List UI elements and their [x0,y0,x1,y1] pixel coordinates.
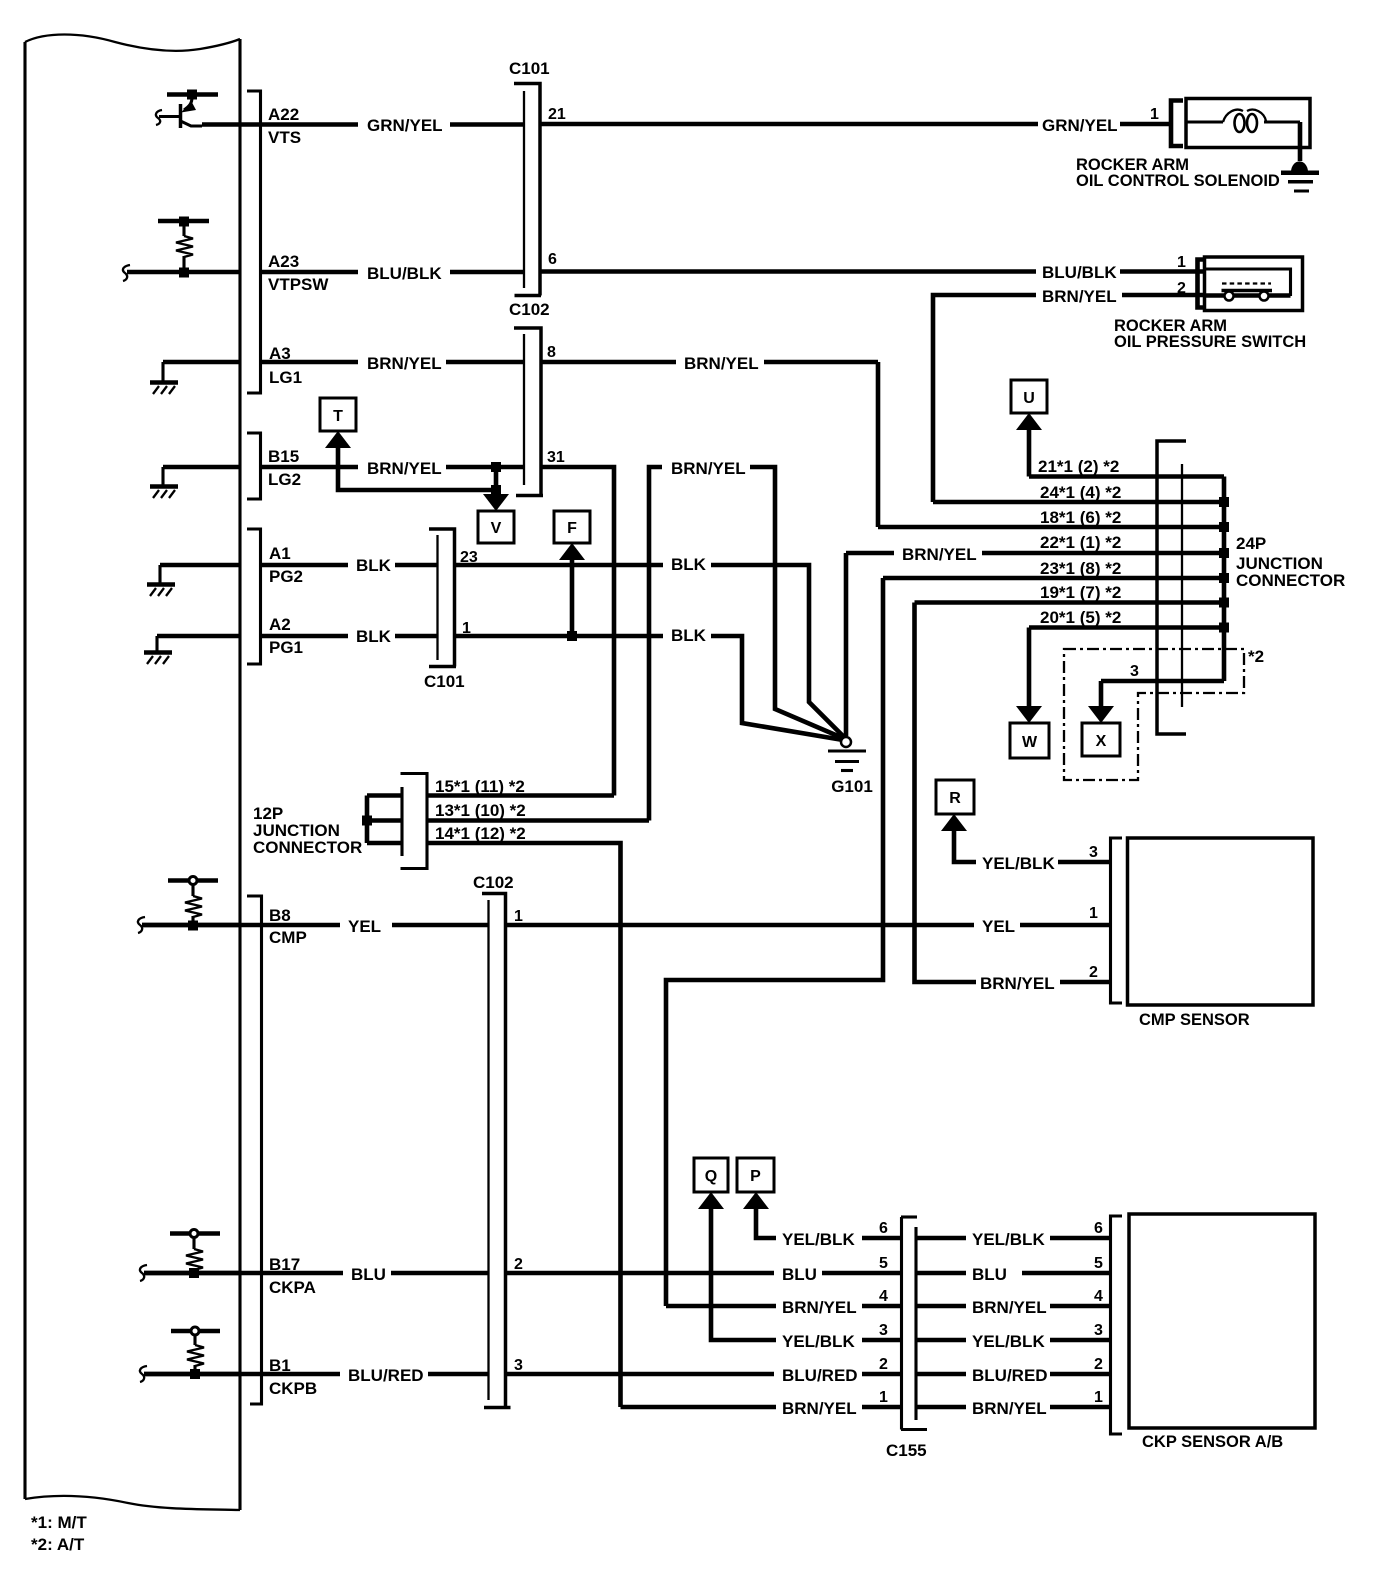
svg-text:Q: Q [705,1168,717,1185]
svg-text:YEL/BLK: YEL/BLK [972,1230,1045,1249]
wire B8 YEL to C102 [142,917,489,936]
svg-text:G101: G101 [831,777,873,796]
svg-text:VTS: VTS [268,128,301,147]
svg-text:5: 5 [879,1255,888,1272]
junction dot row 19 [1219,598,1229,608]
svg-text:3: 3 [1130,663,1139,680]
wire BRN/YEL C155 pin 1 to CKP pin 1 [916,1399,1111,1418]
connector code box T [320,398,356,431]
pin B1 CKPB label [269,1356,317,1398]
svg-text:W: W [1022,734,1038,751]
svg-text:*2: *2 [1248,647,1264,666]
junction dot on A2 wire [567,631,577,641]
pin B17 CKPA label [269,1255,316,1297]
svg-text:BLU: BLU [782,1265,817,1284]
svg-text:13*1 (10) *2: 13*1 (10) *2 [435,801,526,820]
wire 12P pin 14 row down to C155 pin 1 [427,824,621,1407]
wire BLU/RED C155 pin 2 to CKP pin 2 [916,1366,1111,1385]
svg-text:BLU/BLK: BLU/BLK [367,264,442,283]
wire BLU C155 pin 5 to CKP pin 5 [916,1265,1111,1284]
wire-break hook at B17 [140,1265,147,1281]
wire YEL/BLK C155 pin 3 to CKP pin 3 [916,1332,1111,1351]
wire YEL C102 pin 1 to CMP sensor pin 1 [506,917,1111,936]
connector code box P [737,1158,774,1192]
CMP sensor box [1128,838,1314,1029]
ECM housing right edge [238,39,241,1510]
pin B15 LG2 label [268,447,301,489]
connector C101 upper [509,59,550,296]
rocker arm oil control solenoid label [1076,156,1280,190]
connector code box X [1082,723,1120,756]
svg-text:BRN/YEL: BRN/YEL [367,354,442,373]
wire junction row 19 [915,583,1225,603]
wire BLU/BLK C101 to oil pressure switch pin 1 [541,263,1204,282]
svg-text:OIL PRESSURE SWITCH: OIL PRESSURE SWITCH [1114,333,1306,351]
svg-text:19*1 (7) *2: 19*1 (7) *2 [1040,583,1121,602]
CKP sensor A/B box [1129,1214,1315,1451]
resistor R1 at A23 VTPSW [158,217,209,278]
connector code box V [478,511,514,543]
resistor R2 at B8 CMP [168,877,218,931]
svg-text:C102: C102 [509,300,550,319]
wire BRN/YEL junction row 23 to C155 pin 4 [666,1298,902,1317]
svg-text:BRN/YEL: BRN/YEL [684,354,759,373]
24P junction connector label [1236,534,1345,590]
svg-text:1: 1 [879,1389,888,1406]
svg-text:BRN/YEL: BRN/YEL [782,1399,857,1418]
wire junction row 18 [878,508,1224,527]
rocker arm oil pressure switch connector bracket [1198,260,1204,308]
pin A1 PG2 label [269,544,303,586]
wire A23 BLU/BLK to C101 [262,264,524,283]
connector code box W [1010,723,1049,758]
wire BLK C101 pin 1 to G101 [455,626,844,740]
svg-text:3: 3 [1089,844,1098,861]
chassis ground at PG2 (A1) [147,565,240,596]
24P junction bus [1222,477,1227,682]
wire BLU/RED C102 pin 3 to C155 pin 2 [506,1366,902,1385]
wire 12P pin 15 row [427,777,614,796]
junction dot on 12P bus [362,816,372,826]
arrow into X [1088,706,1114,723]
junction dot on branch corner [491,485,501,495]
svg-text:6: 6 [1094,1220,1103,1237]
wire A2 BLK to C101 [262,627,438,646]
svg-text:YEL: YEL [348,917,381,936]
svg-text:2: 2 [1177,280,1186,297]
wire junction row 23 down to CKP row 4 [666,578,883,1306]
junction dot row 22 [1219,548,1229,558]
svg-text:T: T [333,408,343,425]
connector code box Q [694,1158,728,1192]
wire junction row 23 [883,559,1224,578]
wire-break hook at A23 [123,265,130,281]
svg-text:31: 31 [547,449,565,466]
svg-text:YEL/BLK: YEL/BLK [982,854,1055,873]
wire branch from A2 up to F [570,558,575,636]
svg-text:6: 6 [548,251,557,268]
svg-text:BRN/YEL: BRN/YEL [1042,287,1117,306]
wire B17 to wire-break hook [144,1271,240,1276]
24P junction connector body [1157,441,1186,734]
svg-text:YEL/BLK: YEL/BLK [782,1332,855,1351]
junction dot row 20 [1219,623,1229,633]
svg-text:CONNECTOR: CONNECTOR [1236,571,1345,590]
svg-text:CKPA: CKPA [269,1278,316,1297]
svg-text:*1: M/T: *1: M/T [31,1513,87,1532]
svg-text:5: 5 [1094,1255,1103,1272]
connector C101 lower [424,529,465,691]
wire YEL/BLK from P to C155 pin 6 [756,1207,902,1249]
svg-text:2: 2 [879,1356,888,1373]
wire BLK C101 pin 23 to G101 [455,555,846,738]
wire YEL/BLK C155 pin 6 to CKP pin 6 [916,1230,1111,1249]
svg-text:BLK: BLK [356,627,392,646]
arrow into F [559,543,585,560]
wire junction row 24 [933,483,1224,502]
connector C102 lower [473,873,514,1408]
arrow into V [483,494,509,511]
wire YEL/BLK from Q to C155 pin 3 [711,1207,902,1351]
svg-text:BLU/RED: BLU/RED [348,1366,424,1385]
arrow into T [325,431,351,448]
arrow into U [1016,413,1042,430]
svg-text:R: R [949,790,961,807]
wire branch from B15 to T and V [338,446,496,497]
svg-text:BRN/YEL: BRN/YEL [782,1298,857,1317]
svg-text:A22: A22 [268,105,299,124]
wire 12P pin 13 row [427,801,649,821]
svg-text:PG2: PG2 [269,567,303,586]
resistor R3 at B17 CKPA [170,1230,220,1279]
svg-text:2: 2 [1089,964,1098,981]
ECM housing torn bottom edge [25,1496,240,1510]
chassis ground at LG2 (B15) [150,467,240,498]
wire A22 GRN/YEL to C101 [202,116,524,135]
svg-text:BRN/YEL: BRN/YEL [367,459,442,478]
svg-text:GRN/YEL: GRN/YEL [1042,116,1118,135]
svg-text:15*1 (11) *2: 15*1 (11) *2 [435,777,525,796]
svg-text:VTPSW: VTPSW [268,275,329,294]
svg-text:BLU/BLK: BLU/BLK [1042,263,1117,282]
svg-text:BRN/YEL: BRN/YEL [972,1399,1047,1418]
wire BRN/YEL junction row 22 to G101 [846,545,1224,564]
svg-text:1: 1 [462,620,471,637]
junction dot row 18 [1219,522,1229,532]
wire-break hook at B1 [140,1366,147,1382]
wire B15 BRN/YEL to C102 [262,459,524,478]
svg-text:BRN/YEL: BRN/YEL [972,1298,1047,1317]
svg-text:18*1 (6) *2: 18*1 (6) *2 [1040,508,1121,527]
resistor R4 at B1 CKPB [171,1327,220,1379]
svg-text:YEL/BLK: YEL/BLK [782,1230,855,1249]
svg-text:BRN/YEL: BRN/YEL [980,974,1055,993]
svg-text:24*1 (4) *2: 24*1 (4) *2 [1040,483,1121,502]
wire BRN/YEL 12P pin 14 to C155 pin 1 [621,1399,902,1418]
ground G101 [828,553,873,796]
ECM pin bracket B8-B1 [247,896,262,1404]
ECM pin bracket B15 [247,433,261,499]
pin A23 VTPSW label [268,252,329,294]
wire B8 to wire-break hook [142,923,240,928]
svg-text:LG1: LG1 [269,368,302,387]
svg-text:C155: C155 [886,1441,927,1460]
CKP sensor connector bracket [1111,1216,1123,1434]
svg-text:8: 8 [547,344,556,361]
wire A23 to wire-break hook [127,270,240,275]
svg-text:20*1 (5) *2: 20*1 (5) *2 [1040,608,1121,627]
svg-text:24P: 24P [1236,534,1266,553]
wire BRN/YEL pressure switch pin 2 down to junction row 24 [933,287,1204,502]
arrow into Q [698,1192,724,1209]
connector code box F [554,511,590,543]
svg-text:BRN/YEL: BRN/YEL [902,545,977,564]
svg-text:6: 6 [879,1220,888,1237]
svg-text:V: V [491,520,502,537]
chassis ground at LG1 (A3) [150,362,240,394]
wire YEL/BLK from R to CMP sensor pin 3 [954,829,1111,873]
svg-text:4: 4 [1094,1288,1103,1305]
transistor Q1 VTS output driver [159,90,218,129]
svg-text:X: X [1096,733,1107,750]
pressure switch inner chamber [1205,269,1291,296]
arrow into W [1016,706,1042,723]
svg-text:P: P [750,1168,761,1185]
svg-text:A2: A2 [269,615,291,634]
arrow into P [743,1192,769,1209]
pressure switch actuation dashed line [1222,282,1271,284]
pin A2 PG1 label [269,615,303,657]
pin A3 LG1 label [269,344,302,387]
svg-text:YEL/BLK: YEL/BLK [972,1332,1045,1351]
junction dot row 23 [1219,573,1229,583]
wire-break hook at B8 [138,917,145,933]
svg-text:B8: B8 [269,906,291,925]
svg-text:3: 3 [1094,1322,1103,1339]
svg-text:3: 3 [514,1357,523,1374]
svg-text:U: U [1023,390,1035,407]
wire GRN/YEL C101 to solenoid [541,116,1171,135]
ECM housing left edge [23,42,26,1499]
svg-text:CKP SENSOR A/B: CKP SENSOR A/B [1142,1433,1283,1451]
solenoid coil L1 [1186,110,1300,132]
wire BLU C102 pin 2 to C155 pin 5 [506,1265,902,1284]
12P junction connector label [253,804,362,857]
ECM pin bracket A22-A3 [247,91,261,393]
svg-text:C101: C101 [424,672,465,691]
svg-text:BLU/RED: BLU/RED [782,1366,858,1385]
svg-text:BLK: BLK [671,555,707,574]
svg-text:1: 1 [1150,106,1159,123]
svg-text:BLU/RED: BLU/RED [972,1366,1048,1385]
svg-text:BLK: BLK [356,556,392,575]
svg-text:LG2: LG2 [268,470,301,489]
wire solenoid to earth ground [1298,122,1303,161]
wire A3 BRN/YEL to C102 [262,354,524,373]
svg-text:CONNECTOR: CONNECTOR [253,838,362,857]
wire junction row 20 with W branch [1029,608,1224,708]
svg-text:23: 23 [460,549,478,566]
svg-text:21*1 (2) *2: 21*1 (2) *2 [1038,457,1119,476]
svg-text:CKPB: CKPB [269,1379,317,1398]
CMP sensor connector bracket [1111,838,1123,1003]
svg-text:14*1 (12) *2: 14*1 (12) *2 [435,824,526,843]
svg-text:PG1: PG1 [269,638,303,657]
rocker arm oil pressure switch body [1205,257,1303,311]
junction dot on B15 wire [491,462,501,472]
svg-text:1: 1 [1177,254,1186,271]
svg-text:23*1 (8) *2: 23*1 (8) *2 [1040,559,1121,578]
svg-text:C102: C102 [473,873,514,892]
svg-text:CMP: CMP [269,928,307,947]
12P junction connector jumper bus [367,796,402,844]
svg-text:1: 1 [1094,1389,1103,1406]
svg-text:1: 1 [1089,905,1098,922]
wire junction row 19 down to CMP pin 2 BRN/YEL [915,603,1111,994]
svg-text:GRN/YEL: GRN/YEL [367,116,443,135]
ECM housing torn top edge [25,35,240,51]
rocker arm oil control solenoid body [1186,99,1310,148]
wire junction row 21 with U branch [1029,428,1224,477]
svg-text:A23: A23 [268,252,299,271]
rocker arm oil pressure switch label [1114,317,1306,351]
wire B17 BLU to C102 [144,1265,489,1284]
svg-text:22*1 (1) *2: 22*1 (1) *2 [1040,533,1121,552]
svg-text:*2: A/T: *2: A/T [31,1535,85,1554]
connector C155 body [886,1217,927,1460]
svg-text:C101: C101 [509,59,550,78]
svg-text:A1: A1 [269,544,291,563]
wire B1 BLU/RED to C102 [144,1366,489,1385]
pressure switch moving contact bar [1222,289,1273,293]
svg-text:1: 1 [514,908,523,925]
svg-text:3: 3 [879,1322,888,1339]
wire B1 to wire-break hook [144,1372,240,1377]
chassis ground at PG1 (A2) [144,636,240,664]
svg-text:YEL: YEL [982,917,1015,936]
earth ground at solenoid [1281,161,1319,192]
pressure switch contact circles [1225,292,1234,301]
ECM pin bracket A1-A2 [247,529,261,664]
A/T variant dash-dot boundary [1064,649,1244,780]
wire BRN/YEL C102 pin 8 to junction row 18 [541,354,878,527]
svg-text:21: 21 [548,106,566,123]
svg-text:B15: B15 [268,447,299,466]
svg-text:BLU: BLU [972,1265,1007,1284]
connector code box U [1011,380,1047,413]
wire BRN/YEL from 12P pin 13 up and over to G101 [649,459,845,821]
wire A1 BLK to C101 [262,556,438,575]
pin A22 VTS label [268,105,301,147]
svg-text:BLU: BLU [351,1265,386,1284]
wire C102 pin 31 to 12P junction pin 15 [541,467,614,796]
connector code box R [936,780,974,814]
pressure switch contact line [1205,293,1291,298]
svg-text:CMP SENSOR: CMP SENSOR [1139,1011,1250,1029]
wire junction pin 3 with X branch [1101,663,1224,708]
svg-text:BLK: BLK [671,626,707,645]
svg-text:2: 2 [1094,1356,1103,1373]
rocker arm oil control solenoid connector bracket [1171,101,1183,147]
arrow into R [941,814,967,831]
junction dot row 24 [1219,497,1229,507]
svg-text:4: 4 [879,1288,888,1305]
svg-text:OIL CONTROL SOLENOID: OIL CONTROL SOLENOID [1076,172,1280,190]
12P junction connector body [401,774,428,869]
svg-text:F: F [567,520,577,537]
wire BRN/YEL C155 pin 4 to CKP pin 4 [916,1298,1111,1317]
connector C102 upper [509,300,550,496]
wire-break hook at transistor base [156,110,162,125]
svg-text:2: 2 [514,1256,523,1273]
pin B8 CMP label [269,906,307,947]
svg-text:BRN/YEL: BRN/YEL [671,459,746,478]
